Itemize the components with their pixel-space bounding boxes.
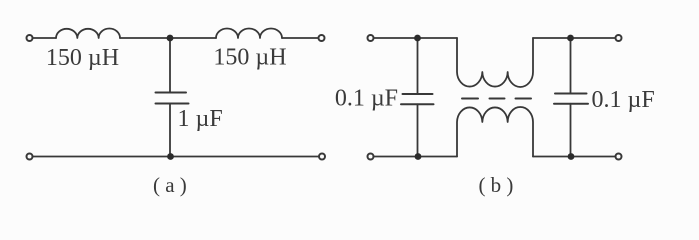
svg-text:1 µF: 1 µF xyxy=(178,106,223,132)
capacitor C2 0.1 uF bottom plate xyxy=(401,103,434,105)
capacitor C1 1 uF top plate xyxy=(156,92,187,94)
wire: (a) bottom rail xyxy=(33,156,318,158)
wire: (a) vertical from C1 down to bottom rail xyxy=(169,104,171,157)
wire: (b) vertical of capacitor C2 bottom xyxy=(417,104,419,156)
svg-text:(b): (b) xyxy=(478,173,518,197)
wire: (b) vertical of capacitor C3 top xyxy=(570,38,572,94)
terminal: circuit (a) output bottom xyxy=(319,154,325,160)
inductor: common-mode choke bottom winding xyxy=(457,107,533,156)
svg-text:(a): (a) xyxy=(153,173,192,197)
svg-text:0.1 µF: 0.1 µF xyxy=(335,85,398,111)
node: (a) top junction xyxy=(167,35,174,42)
capacitor C2 0.1 uF top plate xyxy=(403,93,433,95)
terminal: circuit (b) input bottom xyxy=(368,154,374,160)
wire: (a) top rail from input terminal to L1 xyxy=(33,37,56,39)
terminal: circuit (a) input top xyxy=(27,35,33,41)
wire: (a) vertical from node down to capacitor C1 xyxy=(169,38,171,93)
terminal: circuit (b) input top xyxy=(368,35,374,41)
wire: (a) top rail from L2 to output terminal xyxy=(282,37,318,39)
wire: (b) top rail from choke right to output terminal xyxy=(533,37,615,39)
core: dashed magnetic core of choke xyxy=(462,98,531,100)
capacitor C3 0.1 uF bottom plate xyxy=(554,103,588,105)
wire: (b) vertical of capacitor C2 top xyxy=(417,38,419,94)
inductor L2 150 uH xyxy=(216,29,282,39)
terminal: circuit (b) output top xyxy=(616,35,622,41)
capacitor C3 0.1 uF top plate xyxy=(555,93,587,95)
terminal: circuit (a) output top xyxy=(319,35,325,41)
node: (b) top right junction xyxy=(567,35,574,42)
node: (b) bottom left junction xyxy=(415,153,422,160)
svg-text:150 µH: 150 µH xyxy=(46,45,119,71)
svg-text:0.1 µF: 0.1 µF xyxy=(592,87,655,113)
wire: (b) vertical of capacitor C3 bottom xyxy=(570,104,572,157)
wire: (b) bottom rail right segment xyxy=(533,156,615,158)
wire: (b) top rail from input terminal to choke left xyxy=(374,37,457,39)
terminal: circuit (a) input bottom xyxy=(27,154,33,160)
wire: (b) bottom rail left segment xyxy=(374,156,457,158)
inductor L1 150 uH xyxy=(56,29,120,39)
svg-text:150 µH: 150 µH xyxy=(213,45,286,71)
node: (a) bottom junction xyxy=(167,153,174,160)
node: (b) bottom right junction xyxy=(568,153,575,160)
node: (b) top left junction xyxy=(414,35,421,42)
terminal: circuit (b) output bottom xyxy=(616,154,622,160)
wire: (a) top rail from L1 to L2 through node xyxy=(120,37,216,39)
inductor: common-mode choke top winding xyxy=(457,38,533,87)
capacitor C1 1 uF bottom plate xyxy=(156,103,189,105)
